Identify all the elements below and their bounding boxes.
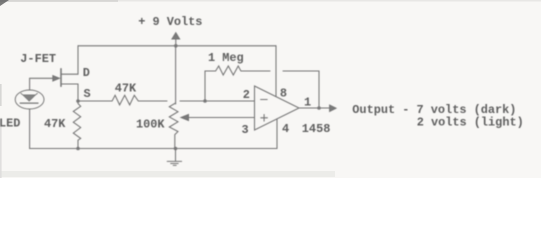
svg-text:D: D xyxy=(83,66,90,80)
svg-text:+ 9 Volts: + 9 Volts xyxy=(138,15,202,29)
svg-text:100K: 100K xyxy=(136,118,165,132)
wire bottom ground rail xyxy=(30,148,277,150)
wire LED cathode to ground rail xyxy=(29,109,31,149)
transistor Q1 J-FET gate arrow xyxy=(53,76,60,82)
transistor Q1 J-FET source lead xyxy=(62,84,79,101)
LED D1 body xyxy=(15,90,44,109)
junction feedback / pin2 xyxy=(203,99,207,103)
+9V supply arrow xyxy=(175,38,177,46)
transistor Q1 J-FET channel xyxy=(60,69,62,86)
wire feedback to output (after crossover gap) xyxy=(283,71,319,108)
junction JFET source node xyxy=(76,99,80,103)
svg-text:1458: 1458 xyxy=(302,122,331,136)
svg-text:47K: 47K xyxy=(115,81,137,95)
svg-text:1 Meg: 1 Meg xyxy=(208,51,244,65)
wire wiper to non-inverting input (pin3 net) xyxy=(188,117,255,119)
potentiometer R3 100K xyxy=(169,103,178,149)
scan artifact: bottom band xyxy=(0,171,335,177)
op-amp U1 minus sign xyxy=(261,99,268,101)
svg-text:3: 3 xyxy=(242,123,249,137)
op-amp U1 plus sign xyxy=(261,115,268,122)
resistor R1 47K vertical xyxy=(73,101,80,149)
svg-text:J-FET: J-FET xyxy=(20,52,56,66)
svg-text:1: 1 xyxy=(304,95,311,109)
svg-text:S: S xyxy=(84,87,91,101)
wire output xyxy=(299,107,330,109)
ground symbol xyxy=(167,149,181,166)
svg-text:8: 8 xyxy=(280,86,287,100)
svg-text:LED: LED xyxy=(0,117,20,131)
wire pot feed from rail xyxy=(175,46,177,104)
wire rail to JFET drain xyxy=(62,46,79,74)
svg-text:47K: 47K xyxy=(44,117,66,131)
scan artifact: top edge band xyxy=(0,0,541,2)
scan artifact: top-left corner mark xyxy=(0,0,9,6)
svg-text:2: 2 xyxy=(243,88,250,102)
junction +9V rail / pot feed xyxy=(174,44,178,48)
wire top +9V rail xyxy=(78,45,276,47)
wire gate to LED anode xyxy=(30,78,54,90)
op-amp U1 triangle xyxy=(255,86,300,130)
wire feedback riser xyxy=(205,71,213,101)
svg-text:2 volts (light): 2 volts (light) xyxy=(417,116,524,130)
LED D1 cathode bar xyxy=(20,102,38,104)
LED D1 anode triangle xyxy=(23,95,36,101)
svg-text:4: 4 xyxy=(282,122,289,136)
scan artifact: left edge streaks xyxy=(0,84,2,106)
potentiometer R3 wiper arrow xyxy=(181,115,189,121)
output arrow xyxy=(330,105,336,111)
junction pot / ground rail xyxy=(174,147,178,151)
resistor R4 1 Meg feedback xyxy=(213,66,271,75)
junction output / feedback xyxy=(317,106,321,110)
wire pin8 to +9V rail xyxy=(275,46,277,96)
wire pin4 to ground rail xyxy=(276,119,278,149)
wire inverting input (pin2 net) xyxy=(180,100,255,102)
resistor R2 47K horizontal xyxy=(78,95,167,105)
junction 47K / ground rail xyxy=(76,147,80,151)
